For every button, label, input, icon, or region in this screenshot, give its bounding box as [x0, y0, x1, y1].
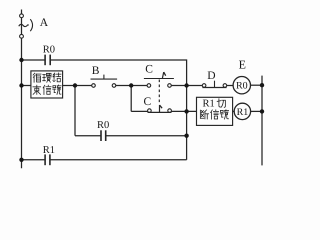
node rail-row1: [19, 58, 23, 62]
svg-text:R1: R1: [237, 107, 249, 118]
svg-text:E: E: [239, 58, 246, 72]
wire D to coil R0: [227, 85, 234, 87]
node row4-riser186: [184, 134, 188, 138]
coil R0: [233, 77, 250, 94]
svg-text:R0: R0: [43, 44, 55, 55]
pushbutton B: [91, 75, 118, 88]
wire row3 left: [131, 110, 147, 112]
wire row5 right: [50, 159, 187, 161]
wire row4 right: [106, 135, 187, 137]
svg-text:R1: R1: [43, 145, 55, 156]
switch A: [19, 14, 33, 38]
mechanical link dashed: [158, 80, 160, 104]
wire row4 left: [75, 135, 101, 137]
node rightrail-row3: [260, 109, 264, 113]
riser row2 to row4 at x=75: [74, 86, 76, 136]
wire B to C: [116, 85, 147, 87]
main riser x=186.6 rows2-5: [186, 86, 188, 160]
node rail-row5: [19, 158, 23, 162]
pushbutton C lower (NC): [148, 105, 172, 112]
node row2-riser186: [184, 83, 188, 87]
svg-text:D: D: [207, 70, 215, 82]
svg-text:C: C: [145, 63, 153, 75]
wire row3 to R1 box: [171, 110, 196, 112]
wire coil R1 to right rail: [251, 110, 262, 112]
wire row1 to corner and down to row2: [50, 60, 186, 86]
svg-text:C: C: [144, 96, 152, 108]
box R1 cutoff-signal: [197, 97, 233, 125]
svg-text:B: B: [92, 65, 100, 77]
wire row1: [22, 59, 46, 61]
node rail-row2: [19, 83, 23, 87]
wire rail to box: [22, 85, 31, 87]
contact R1 row5: [44, 154, 46, 165]
wire coil R0 to right rail: [251, 84, 263, 86]
box2 text: R1 切 / 斷信號: [200, 99, 228, 119]
riser row2 to row3 at x=131: [130, 86, 132, 112]
box cycle-end-signal: [31, 71, 63, 98]
svg-text:R0: R0: [97, 120, 109, 131]
node row3-riser186: [184, 109, 188, 113]
pushbutton C upper: [144, 72, 174, 87]
right rail: [261, 76, 263, 166]
box1 text: 循環結 / 束信號: [33, 73, 61, 94]
contact R0 row1: [44, 55, 46, 66]
svg-text:R1: R1: [203, 99, 215, 110]
svg-text:R0: R0: [236, 81, 248, 92]
node rightrail-row2: [260, 83, 264, 87]
contact R0 row4: [100, 130, 102, 141]
wire box to coil R1: [233, 110, 235, 112]
node row2-riser75: [73, 83, 77, 87]
wire row5: [22, 159, 46, 161]
wire C to D: [171, 85, 202, 87]
pushbutton D (NC): [202, 81, 226, 88]
node row2-riser131: [129, 83, 133, 87]
left rail: [21, 10, 23, 169]
wire box to B: [63, 85, 92, 87]
coil R1: [234, 103, 250, 119]
svg-text:A: A: [40, 17, 49, 29]
